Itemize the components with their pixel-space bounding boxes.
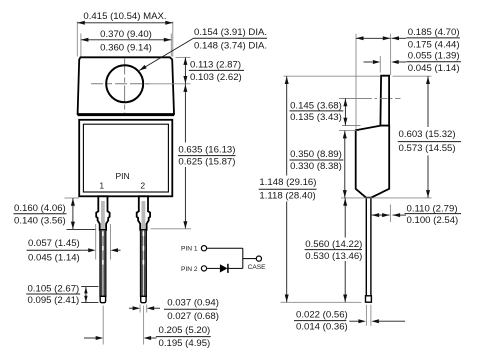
body bottom extension left (65, 197, 80, 199)
value 0.105 (2.67) (26, 283, 80, 306)
dim 0.415 extension lines (77, 22, 173, 57)
value 0.145 (3.68) (290, 100, 344, 123)
dim 0.113 hole position (183, 57, 187, 83)
svg-text:0.045 (1.14): 0.045 (1.14) (408, 63, 460, 74)
body front view (79, 120, 172, 197)
svg-text:0.103 (2.62): 0.103 (2.62) (190, 72, 242, 83)
svg-text:0.625 (15.87): 0.625 (15.87) (178, 157, 235, 168)
svg-text:0.095 (2.41): 0.095 (2.41) (28, 295, 80, 306)
ext line tab top left (284, 75, 381, 77)
schematic pin 1 terminal (201, 246, 206, 251)
svg-text:0.175 (4.44): 0.175 (4.44) (408, 39, 460, 50)
dim 0.037 lead thickness extension lines (140, 305, 147, 313)
value 0.560 (14.22) (302, 238, 365, 262)
dim 0.350 body height (343, 131, 347, 198)
dim 0.160 standoff (71, 198, 75, 229)
dim 1.148 overall height (285, 76, 289, 302)
lead center extension lines below tips (103, 306, 143, 345)
value 0.185 (4.70) (406, 27, 460, 50)
value 0.057 (1.45) (27, 238, 82, 263)
dim 0.037 arrows (129, 306, 160, 310)
svg-text:1.118 (28.40): 1.118 (28.40) (259, 191, 315, 202)
svg-text:PIN: PIN (116, 171, 130, 181)
svg-text:1: 1 (99, 181, 104, 191)
svg-text:0.037 (0.94): 0.037 (0.94) (167, 298, 219, 309)
svg-text:0.057 (1.45): 0.057 (1.45) (28, 238, 80, 249)
value 0.635 (16.13) (176, 143, 238, 168)
tab top extension right (176, 56, 191, 58)
dim 0.185 overall depth (356, 36, 406, 40)
ext line tab back face top (390, 34, 392, 75)
dim 0.603 tab top to body bottom (426, 76, 430, 198)
ext line tab top right (393, 75, 432, 77)
svg-text:0.185 (4.70): 0.185 (4.70) (408, 27, 460, 38)
svg-text:0.530 (13.46): 0.530 (13.46) (305, 251, 362, 262)
svg-text:0.135 (3.43): 0.135 (3.43) (290, 112, 342, 123)
svg-text:PIN 1: PIN 1 (181, 246, 198, 253)
svg-text:0.603 (15.32): 0.603 (15.32) (399, 129, 456, 140)
svg-text:0.045 (1.14): 0.045 (1.14) (28, 252, 80, 263)
dim 0.057 lead width extension lines (96, 224, 111, 260)
dim 0.415 MAX tab width (77, 21, 173, 25)
svg-text:0.145 (3.68): 0.145 (3.68) (290, 100, 342, 111)
side view body (356, 126, 390, 198)
svg-text:2: 2 (140, 181, 145, 191)
ext line body top corner (339, 130, 356, 132)
seating plane extension left (67, 228, 96, 230)
side view tab (380, 76, 389, 126)
hole centerline side view (339, 97, 401, 99)
value 0.160 (4.06) (14, 203, 67, 226)
value 0.110 (2.79) (405, 203, 461, 226)
svg-text:0.560 (14.22): 0.560 (14.22) (305, 239, 362, 250)
lead pin 2 lower section (140, 230, 146, 297)
lead pin 2 upper crimp (137, 196, 150, 230)
ext line body top at tab (342, 125, 361, 127)
svg-text:0.350 (8.89): 0.350 (8.89) (290, 149, 342, 160)
svg-text:CASE: CASE (248, 264, 267, 271)
ext line body front face (355, 34, 357, 130)
svg-text:0.195 (4.95): 0.195 (4.95) (159, 338, 211, 349)
ext line body bottom (341, 197, 432, 199)
diode D1 (220, 264, 228, 273)
side view lead tip (366, 296, 372, 302)
lead pin 1 upper crimp (96, 196, 109, 230)
value 0.603 (15.32) (396, 127, 463, 156)
svg-text:0.100 (2.54): 0.100 (2.54) (407, 215, 459, 226)
svg-text:0.014 (0.36): 0.014 (0.36) (296, 322, 348, 333)
dim 0.105 tip length (81, 287, 98, 303)
wire pin1 horizontal (207, 247, 243, 249)
wire pin2 to diode (207, 267, 220, 269)
svg-text:0.110 (2.79): 0.110 (2.79) (407, 203, 458, 214)
mounting hole (106, 65, 143, 102)
value 0.055 (1.39) (406, 51, 461, 74)
value 0.205 (5.20) (156, 325, 211, 349)
svg-text:0.370 (9.40): 0.370 (9.40) (100, 29, 152, 40)
svg-text:0.360 (9.14): 0.360 (9.14) (100, 42, 152, 53)
svg-text:0.113 (2.87): 0.113 (2.87) (190, 60, 241, 71)
ext line lead back offset (389, 205, 391, 223)
value 0.037 (0.94) (164, 298, 219, 322)
hole diameter callout (139, 27, 267, 71)
ext line lead tip (281, 301, 362, 303)
ext lines below side lead tip (366, 305, 371, 326)
svg-text:0.105 (2.67): 0.105 (2.67) (28, 283, 80, 294)
svg-text:0.160 (4.06): 0.160 (4.06) (14, 203, 66, 214)
schematic pin 2 terminal (201, 266, 206, 271)
dim 0.057 arrows (81, 248, 120, 252)
svg-text:0.573 (14.55): 0.573 (14.55) (399, 143, 456, 154)
svg-text:0.055 (1.39): 0.055 (1.39) (408, 51, 460, 62)
hole center extension right (146, 83, 191, 85)
value 1.148 (29.16) (257, 176, 319, 202)
svg-text:0.635 (16.13): 0.635 (16.13) (178, 145, 235, 156)
value 0.113 (2.87) (189, 60, 244, 83)
wire diode to junction (228, 267, 243, 269)
tab front view (78, 57, 175, 115)
dim 0.205 lead spacing arrows (84, 336, 157, 340)
lead pin 1 tip (100, 296, 105, 302)
svg-text:0.154 (3.91) DIA.: 0.154 (3.91) DIA. (194, 27, 267, 38)
ext line tab front face (379, 56, 381, 73)
body inner outline (83, 124, 168, 192)
value 0.022 (0.56) (294, 310, 348, 333)
svg-text:PIN 2: PIN 2 (181, 266, 198, 273)
svg-text:0.022 (0.56): 0.022 (0.56) (296, 310, 348, 321)
dim 0.635 hole center to seating (183, 84, 187, 229)
svg-text:0.330 (8.38): 0.330 (8.38) (290, 161, 342, 172)
svg-text:0.027 (0.68): 0.027 (0.68) (167, 311, 219, 322)
dim 0.370 body width (81, 38, 171, 42)
dim 0.110 lead to back face (372, 213, 406, 217)
wire right vertical (242, 248, 244, 268)
wire to case terminal (243, 258, 256, 260)
seating plane extension right (151, 228, 192, 230)
svg-text:0.205 (5.20): 0.205 (5.20) (159, 325, 211, 336)
lead pin 2 tip (141, 296, 146, 302)
mounting hole centerlines (91, 59, 150, 114)
svg-text:0.140 (3.56): 0.140 (3.56) (14, 215, 66, 226)
dim 0.560 lead length (343, 198, 347, 302)
svg-text:0.415 (10.54) MAX.: 0.415 (10.54) MAX. (83, 11, 166, 22)
dim 0.055 tab thickness (364, 60, 407, 64)
dim 0.145 hole center to body top (343, 98, 347, 125)
lead pin 1 lower section (100, 230, 106, 297)
case terminal (256, 256, 261, 261)
value 0.350 (8.89) (290, 149, 344, 172)
dim 0.022 lead thickness arrows (349, 319, 405, 323)
svg-text:0.148 (3.74) DIA.: 0.148 (3.74) DIA. (194, 40, 267, 51)
side view lead (366, 198, 371, 296)
dim 0.370 extension lines (81, 34, 171, 57)
svg-text:1.148 (29.16): 1.148 (29.16) (259, 177, 316, 188)
